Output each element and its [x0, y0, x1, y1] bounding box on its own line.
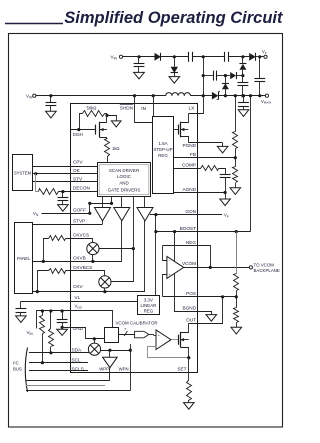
ground (GND pin): [57, 329, 68, 335]
inductor L1: [166, 93, 191, 96]
terminal VP: [264, 55, 267, 58]
node VCOM feedback: [209, 266, 212, 269]
node VP cap tap: [258, 55, 261, 58]
title: [5, 23, 63, 25]
svg-text:VP: VP: [262, 49, 267, 55]
svg-text:VMAIN: VMAIN: [261, 99, 271, 105]
block: VCOM CALIBRATOR: [105, 328, 119, 343]
bus wire with width-7 slash: [118, 334, 134, 336]
svg-text:SCAN DRIVER: SCAN DRIVER: [109, 168, 139, 173]
svg-text:SDA: SDA: [72, 347, 83, 352]
node CKVB/sense: [42, 260, 45, 263]
wire WPN to bus line 3: [130, 344, 132, 391]
svg-text:STVP: STVP: [73, 219, 85, 224]
I2C BUS brace + label: [25, 348, 27, 393]
DAC symbol: [135, 331, 149, 338]
lamp X1 (CKV load): [87, 243, 99, 255]
wire DAC to op-amp: [149, 334, 154, 336]
transistor M3 (discharge): [80, 114, 83, 130]
node FB divider tap: [234, 94, 237, 97]
node OE/RC tap: [34, 172, 37, 175]
capacitor C4 (series, mid row): [213, 71, 215, 81]
capacitor C-COMP: [219, 169, 226, 175]
ground (C7): [46, 111, 57, 118]
buffer input stubs: [102, 196, 104, 207]
svg-text:REG: REG: [158, 153, 168, 158]
svg-text:STEP-UP: STEP-UP: [153, 147, 172, 152]
capacitor C9: [62, 311, 64, 319]
ground (C-VL): [16, 316, 27, 323]
node CKV/X2: [103, 290, 106, 293]
wire D5 to VP terminal: [256, 56, 264, 58]
svg-text:TO VCOM: TO VCOM: [254, 262, 275, 267]
GOFF routing bus: [90, 197, 112, 214]
wire VMAIN rail: [218, 95, 265, 97]
svg-text:7: 7: [124, 327, 126, 331]
block: SCAN DRIVER LOGIC AND GATE DRIVERS: [98, 163, 151, 197]
svg-text:PANEL: PANEL: [17, 256, 31, 261]
svg-text:BACKPLANE: BACKPLANE: [254, 268, 280, 273]
svg-text:1.5A: 1.5A: [158, 141, 167, 146]
lamp X3 (SDA): [88, 343, 100, 355]
node D4 cathode: [241, 55, 244, 58]
resistor R-SET: [187, 381, 192, 401]
ground (VCOM divider): [231, 327, 242, 334]
ground (C8): [238, 110, 249, 117]
wire C3 to D4 node: [228, 56, 249, 58]
resistor R-COMP: [201, 166, 219, 171]
node BOOST feed tap: [249, 94, 252, 97]
node DECON RC: [61, 190, 64, 193]
svg-text:AND: AND: [119, 181, 128, 186]
svg-text:I²C: I²C: [13, 360, 19, 365]
block: 1.5A STEP-UP REG: [153, 117, 174, 194]
svg-text:1kΩ: 1kΩ: [112, 146, 120, 151]
transistor M1 (step-up switch): [174, 129, 179, 131]
resistor R4: [236, 297, 238, 308]
node BOOST divider tap: [235, 230, 238, 233]
terminal VMAIN: [265, 94, 268, 97]
node D6 anode: [224, 94, 227, 97]
svg-text:VIN: VIN: [111, 54, 118, 60]
svg-text:3.3V: 3.3V: [144, 297, 153, 302]
svg-text:VN: VN: [33, 211, 39, 217]
resistor R2 (FB bottom): [235, 158, 237, 167]
node CKV/sense: [36, 290, 39, 293]
diode D2 (to ground): [174, 57, 176, 67]
svg-text:AGND: AGND: [182, 187, 196, 192]
diode D5 (to VP): [249, 53, 255, 61]
pin DISCH stub + label: [70, 129, 95, 131]
node driver bus: [132, 247, 135, 250]
ground (SET): [184, 403, 195, 410]
lamp X2 (CKVB load): [99, 276, 111, 288]
svg-text:COMP: COMP: [182, 162, 196, 167]
svg-text:LOGIC: LOGIC: [117, 174, 132, 179]
svg-text:VIN: VIN: [26, 93, 33, 99]
ground (FB divider): [230, 188, 241, 195]
node BOOST left: [154, 230, 157, 233]
ground (AGND): [220, 199, 231, 206]
svg-text:STV: STV: [73, 177, 83, 182]
op-amp A2 (calibrator): [156, 330, 171, 350]
wire CKVB to T2: [121, 221, 123, 262]
ground (PGND): [217, 146, 228, 153]
transistor M2 (VCOM cal output): [178, 335, 180, 345]
svg-text:OUT: OUT: [186, 317, 196, 322]
outer border frame: [9, 34, 283, 428]
op-amp A1 (VCOM buffer): [163, 246, 167, 261]
node C8 tap: [242, 94, 245, 97]
block: SYSTEM: [13, 155, 33, 191]
wire VIN rail: [36, 95, 166, 97]
node C7 tap: [49, 94, 52, 97]
diode D6 (vertical, up): [225, 76, 227, 84]
svg-text:VDD: VDD: [75, 304, 83, 310]
wire D1 to node: [161, 56, 189, 58]
node BOOST mid (to BGND chain): [173, 230, 176, 233]
svg-text:FB: FB: [190, 152, 196, 157]
node D2 tap: [173, 55, 176, 58]
wire BOOST to VMAIN: [250, 96, 252, 232]
svg-text:WPP: WPP: [99, 367, 109, 372]
svg-text:VL: VL: [75, 295, 81, 300]
node SCL pullup: [41, 361, 44, 364]
node charge-pump bus top: [202, 55, 205, 58]
ground (D2): [169, 77, 180, 84]
wire bus up to logic block: [133, 196, 135, 248]
svg-text:VCOM: VCOM: [182, 261, 196, 266]
svg-text:CKV: CKV: [73, 284, 84, 289]
resistor R-50k: [83, 111, 105, 117]
node C5 bottom: [241, 94, 244, 97]
node CKVB/X1: [91, 260, 94, 263]
wire LX: [189, 96, 204, 114]
mid charge-pump row: [203, 57, 205, 76]
wire L1 to LX node: [191, 95, 212, 97]
capacitor C5 (to VMAIN): [242, 76, 244, 83]
buffer WPP (inverter): [109, 350, 111, 357]
svg-text:OE: OE: [73, 168, 80, 173]
capacitor C6 (VP to VMAIN): [259, 57, 261, 79]
bus line 2: [26, 385, 105, 387]
svg-text:VCOM CALIBRATOR: VCOM CALIBRATOR: [116, 321, 158, 326]
node pullup R6: [49, 309, 52, 312]
buffer T2 (CKVB driver): [114, 208, 130, 221]
node GON: [154, 213, 157, 216]
svg-text:WPN: WPN: [119, 367, 129, 372]
capacitor C-VL: [20, 301, 22, 309]
bus vertical mid->VMAIN (LX node): [203, 76, 205, 96]
resistor R6 (SDA pullup): [50, 311, 52, 329]
wire VIN to D1: [123, 56, 155, 58]
svg-text:SET: SET: [177, 367, 186, 372]
node SDA pullup: [49, 351, 52, 354]
wire X3 right / WPP WPN nodes: [101, 350, 131, 352]
capacitor C3 (series, top rail): [224, 52, 226, 62]
ground (DECON): [58, 205, 69, 212]
node 50k/drain: [105, 114, 108, 117]
node pullup R5: [41, 309, 44, 312]
node mid row / D6 tap: [224, 74, 227, 77]
resistor R1 (FB top): [235, 96, 237, 132]
svg-text:GND: GND: [73, 326, 84, 331]
svg-text:GON: GON: [185, 209, 196, 214]
buffer T3 (CKV driver): [137, 208, 153, 221]
node GND/C9: [61, 326, 64, 329]
A2 feedback wire: [148, 347, 189, 358]
svg-text:BGND: BGND: [182, 306, 196, 311]
svg-text:SYSTEM: SYSTEM: [14, 170, 32, 175]
svg-text:REG: REG: [144, 309, 154, 314]
wire CKV to T3: [144, 221, 146, 292]
node C9 tap: [61, 309, 64, 312]
node calibrator/X3: [93, 337, 96, 340]
svg-text:GATE DRIVERS: GATE DRIVERS: [108, 187, 141, 192]
diode D3 (mid row): [230, 72, 236, 79]
IC U1 body outline: [71, 104, 198, 373]
capacitor C7: [50, 96, 52, 103]
svg-text:CPV: CPV: [73, 160, 84, 165]
node M2 source/feedback: [187, 356, 190, 359]
svg-text:NEG: NEG: [186, 240, 197, 245]
schottky diode D7 (LX to VMAIN): [212, 92, 218, 100]
svg-text:DECON: DECON: [73, 186, 90, 191]
wire SHDN: [135, 96, 153, 123]
resistor R-1k (50k/MOSFET branch): [105, 139, 110, 157]
svg-text:BOOST: BOOST: [180, 226, 197, 231]
wire bus down to X2: [111, 249, 134, 282]
ground (BGND): [206, 315, 217, 322]
resistor R5 (SCL pullup): [42, 311, 44, 316]
svg-text:−: −: [168, 258, 170, 262]
node LX: [202, 94, 205, 97]
wire A2 out to M2 gate: [171, 339, 178, 341]
diode D4 (vertical, up): [242, 57, 244, 64]
ground (C1): [134, 72, 145, 79]
wire X1 to driver bus: [99, 248, 134, 250]
node AGND/COMP junction: [224, 191, 227, 194]
svg-text:VIN: VIN: [27, 330, 34, 336]
wire C2 to bus node: [192, 56, 224, 58]
svg-text:Simplified Operating Circuit: Simplified Operating Circuit: [64, 9, 284, 27]
svg-text:POS: POS: [186, 291, 196, 296]
svg-text:SCL: SCL: [72, 357, 82, 362]
buffer T1 (GOFF driver): [95, 208, 111, 221]
terminal TO VCOM BACKPLANE: [249, 266, 252, 269]
svg-text:BUS: BUS: [13, 366, 22, 371]
node mid row right: [241, 74, 244, 77]
block: 3.3V LINEAR REG: [138, 296, 160, 315]
node FB: [234, 156, 237, 159]
capacitor C8 (VMAIN to gnd): [243, 96, 245, 103]
capacitor C1: [138, 57, 140, 64]
node C6 bottom: [258, 94, 261, 97]
svg-text:GOFF: GOFF: [73, 208, 86, 213]
node POS/OUT junction: [221, 295, 224, 298]
node IN tap: [152, 94, 155, 97]
svg-text:IN: IN: [141, 106, 146, 111]
svg-text:CKVB: CKVB: [73, 256, 86, 261]
svg-text:CKVBCS: CKVBCS: [73, 265, 92, 270]
wire WPP tip to bus line: [109, 368, 111, 380]
capacitor C-DECON: [62, 192, 64, 198]
svg-text:LINEAR: LINEAR: [140, 303, 156, 308]
svg-text:CKVCS: CKVCS: [73, 233, 89, 238]
svg-text:PGND: PGND: [182, 143, 196, 148]
svg-text:LX: LX: [189, 106, 196, 111]
svg-text:VP: VP: [224, 213, 229, 219]
diode D1: [155, 53, 161, 61]
wire GON to 3.3V reg rail: [155, 215, 157, 296]
wire IN: [153, 96, 155, 117]
wire to gnd (M3): [107, 116, 117, 121]
resistor R-DECON: [39, 189, 59, 195]
node top rail / C1: [137, 55, 140, 58]
svg-text:SHDN: SHDN: [120, 105, 133, 110]
block: PANEL: [15, 223, 33, 294]
ground (M3): [111, 121, 121, 127]
node POS divider: [235, 295, 238, 298]
resistor R3: [234, 274, 239, 291]
svg-text:50kΩ: 50kΩ: [87, 105, 97, 110]
svg-text:DISH: DISH: [73, 132, 83, 137]
capacitor C2 (series, top rail): [188, 52, 190, 62]
VCOM divider (BOOST to gnd): [236, 232, 238, 274]
node SHDN tap: [133, 94, 136, 97]
